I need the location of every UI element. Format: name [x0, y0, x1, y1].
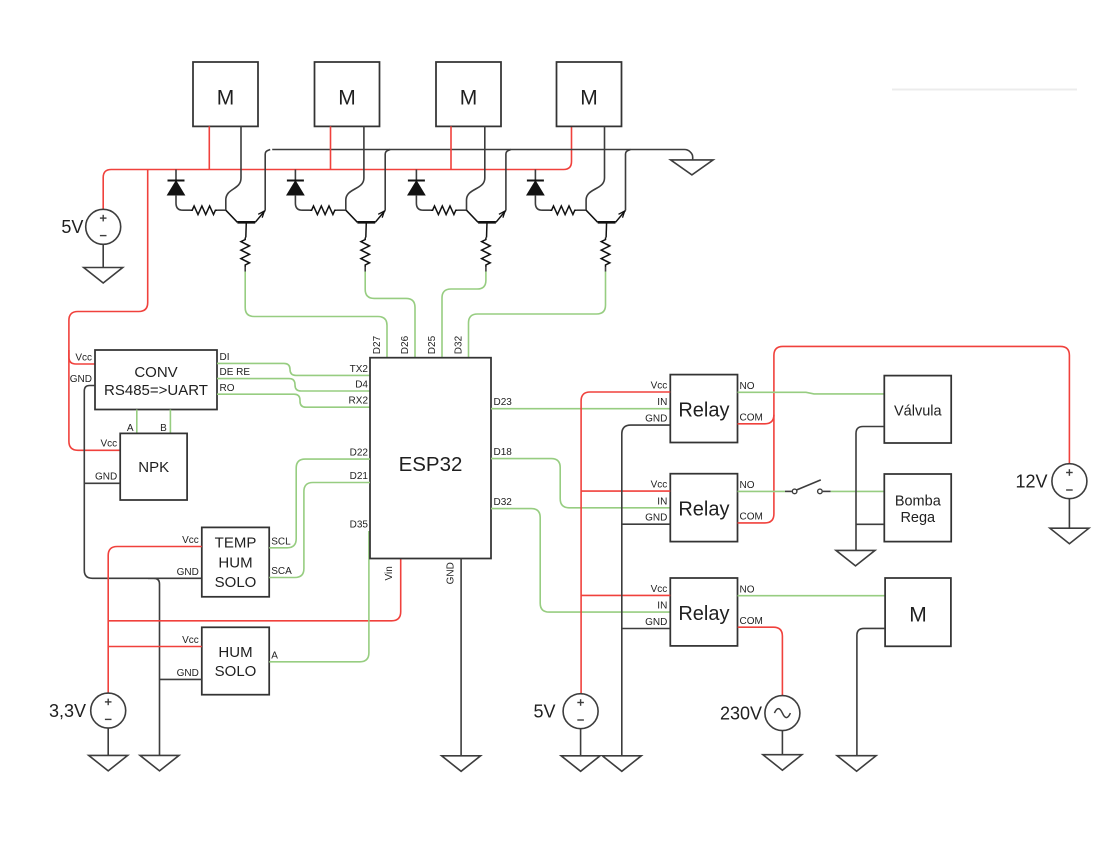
voltage source 230V AC: [765, 696, 800, 731]
svg-text:SCA: SCA: [271, 566, 292, 577]
pin label GND (relay K3): [645, 617, 667, 628]
wire 12V to ground: [1068, 499, 1070, 529]
wire 3,3V to TEMP Vcc: [108, 547, 202, 694]
svg-text:NPK: NPK: [138, 459, 169, 476]
svg-text:3,3V: 3,3V: [49, 701, 86, 721]
pin label D32 (ESP32 top): [454, 335, 465, 354]
wire D32 to relay3 IN: [491, 509, 670, 612]
pin label Vcc (relay K1): [651, 381, 668, 392]
wire 5V red bus: [103, 126, 571, 209]
wire D25 gate (stage 3): [442, 272, 486, 358]
pin label RO (CONV): [220, 383, 235, 394]
wire relay2 GND: [622, 523, 671, 525]
pin label DE RE (CONV): [220, 367, 251, 378]
transistor Q3: [467, 210, 506, 237]
svg-text:Vcc: Vcc: [182, 635, 199, 646]
transistor Q2: [346, 210, 385, 237]
pin label RX2 (ESP32 left): [349, 396, 369, 407]
wire relay GND rail: [622, 425, 671, 756]
actuator Valvula: [884, 376, 951, 443]
svg-text:COM: COM: [740, 412, 763, 423]
pin label SCL (TEMP): [271, 536, 291, 547]
wire 5V bottom to ground: [580, 729, 582, 756]
pin label DI (CONV): [220, 352, 230, 363]
flyback diode (stage 2): [287, 170, 310, 211]
wire M1 red lead: [208, 126, 210, 169]
voltage source 5V (bottom): [563, 694, 598, 729]
wire D18 to relay2 IN: [491, 459, 670, 508]
wire GND (NPK): [84, 482, 120, 484]
wire RO to RX2: [217, 394, 370, 407]
motor M1: [193, 62, 258, 126]
wire relay1 NO to Valvula: [738, 392, 885, 394]
wire GND top bus: [272, 150, 693, 160]
wire GND sensors: [84, 386, 202, 579]
wire ESP32 GND: [460, 559, 462, 756]
svg-text:NO: NO: [740, 584, 755, 595]
wire D26 gate (stage 2): [365, 272, 415, 358]
pin label Vcc (relay K3): [651, 584, 668, 595]
pin label SCA (TEMP): [271, 566, 292, 577]
svg-text:D27: D27: [372, 335, 383, 354]
wire emitter to GND bus (stage 1): [265, 150, 270, 211]
pin label COM (relay K1): [740, 412, 763, 423]
wire switch to Bomba Rega: [831, 490, 885, 492]
transistor Q1: [226, 210, 265, 237]
pin label Vcc (NPK): [101, 439, 118, 450]
pin label COM (relay K3): [740, 616, 763, 627]
svg-text:Relay: Relay: [678, 603, 729, 625]
svg-text:M: M: [909, 604, 927, 627]
wire Valvula GND: [856, 427, 884, 551]
relay K3: [670, 578, 737, 646]
svg-text:Relay: Relay: [678, 400, 729, 422]
svg-text:D32: D32: [494, 497, 513, 508]
wire M4 dark lead: [586, 126, 604, 210]
motor M4: [557, 62, 622, 126]
flyback diode (stage 3): [408, 170, 431, 211]
label 230V: [720, 703, 762, 723]
pin label IN (relay K3): [657, 601, 667, 612]
wire relay3 Vcc: [581, 594, 670, 596]
pin label NO (relay K1): [740, 381, 755, 392]
svg-text:SCL: SCL: [271, 536, 291, 547]
ground (12V): [1050, 528, 1089, 544]
svg-text:RX2: RX2: [349, 396, 369, 407]
base resistor (stage 4): [550, 206, 587, 215]
wire M3 dark lead: [467, 126, 485, 210]
ground (sensor GND): [140, 755, 179, 771]
wire Vcc feed to converter: [69, 170, 148, 451]
wire relay3 COM to 230V: [738, 627, 783, 695]
pin label Vin (ESP32 bottom): [384, 566, 395, 580]
svg-text:D21: D21: [350, 471, 369, 482]
svg-text:D4: D4: [355, 380, 368, 391]
svg-text:GND: GND: [645, 617, 667, 628]
svg-text:GND: GND: [70, 374, 92, 385]
svg-text:B: B: [160, 423, 167, 434]
svg-text:SOLO: SOLO: [215, 574, 257, 591]
pin label Vcc (relay K2): [651, 480, 668, 491]
wire M3 red lead: [450, 126, 452, 169]
microcontroller ESP32: [370, 358, 491, 559]
wire DI to TX2: [217, 363, 370, 375]
pin label D26 (ESP32 top): [400, 335, 411, 354]
wire relay3 GND: [622, 628, 671, 630]
svg-text:GND: GND: [445, 562, 456, 584]
svg-text:GND: GND: [645, 513, 667, 524]
voltage source 3,3V: [91, 693, 126, 728]
svg-text:M: M: [338, 87, 356, 110]
svg-text:RO: RO: [220, 383, 235, 394]
svg-text:Rega: Rega: [900, 510, 936, 526]
pin label GND (CONV): [70, 374, 92, 385]
label 5V (bottom): [533, 702, 555, 722]
ground (top right): [671, 160, 714, 175]
svg-text:TEMP: TEMP: [215, 535, 257, 552]
sensor TEMP HUM SOLO: [202, 527, 269, 596]
svg-text:RS485=>UART: RS485=>UART: [104, 382, 208, 399]
wire 230V to ground: [781, 731, 783, 755]
svg-text:D32: D32: [454, 335, 465, 354]
wire GND branch to bottom ground: [148, 578, 160, 755]
wire motor M GND: [857, 628, 885, 755]
wire D22 to SCL: [269, 459, 370, 548]
svg-text:IN: IN: [657, 496, 667, 507]
pin label GND (ESP32 bottom): [445, 562, 456, 584]
pin label D25 (ESP32 top): [427, 335, 438, 354]
wire emitter to GND bus (stage 3): [506, 150, 511, 211]
svg-text:5V: 5V: [61, 217, 83, 237]
wire relay2 NO to switch: [738, 490, 786, 492]
svg-text:Vcc: Vcc: [75, 353, 92, 364]
svg-text:D18: D18: [494, 447, 513, 458]
flyback diode (stage 4): [527, 170, 550, 211]
voltage source 12V: [1052, 464, 1087, 499]
svg-text:D26: D26: [400, 335, 411, 354]
relay K1: [670, 375, 737, 443]
svg-text:Relay: Relay: [678, 499, 729, 521]
pin label D32 (ESP32 right): [494, 497, 513, 508]
base resistor (stage 3): [431, 206, 467, 215]
wire 3,3V to ESP32 Vin: [108, 559, 401, 621]
wire relay2 COM: [738, 415, 774, 523]
wire relay2 Vcc: [581, 490, 670, 492]
voltage source 5V (top left): [86, 209, 121, 244]
wire D27 gate (stage 1): [245, 272, 387, 358]
label 3,3V: [49, 701, 86, 721]
svg-text:5V: 5V: [533, 702, 555, 722]
wire DE RE to D4: [217, 379, 370, 391]
faint line (top right): [892, 89, 1077, 91]
pin label D18 (ESP32 right): [494, 447, 513, 458]
svg-text:IN: IN: [657, 601, 667, 612]
svg-text:TX2: TX2: [350, 364, 369, 375]
svg-text:A: A: [271, 650, 278, 661]
pin label D21 (ESP32 left): [350, 471, 369, 482]
svg-text:Vin: Vin: [384, 566, 395, 580]
label 5V (top left): [61, 217, 83, 237]
wire relay3 NO to motor: [738, 595, 886, 597]
svg-text:M: M: [460, 87, 478, 110]
wire emitter to GND bus (stage 4): [626, 150, 631, 211]
pin label GND (TEMP): [177, 567, 199, 578]
wire D32 gate (stage 4): [469, 272, 606, 358]
pin label A (HUM): [271, 650, 278, 661]
pin label D23 (ESP32 right): [494, 397, 513, 408]
svg-text:HUM: HUM: [218, 554, 252, 571]
wire 3,3V to HUM Vcc: [108, 646, 202, 648]
sensor NPK: [120, 433, 187, 500]
svg-text:NO: NO: [740, 480, 755, 491]
svg-text:Vcc: Vcc: [651, 381, 668, 392]
svg-text:HUM: HUM: [218, 644, 252, 661]
svg-text:12V: 12V: [1015, 472, 1047, 492]
svg-text:CONV: CONV: [134, 364, 177, 381]
pin label IN (relay K1): [657, 397, 667, 408]
pin label Vcc (HUM): [182, 635, 199, 646]
wire emitter to GND bus (stage 2): [385, 150, 390, 211]
converter CONV RS485=>UART: [95, 350, 217, 410]
svg-text:GND: GND: [177, 567, 199, 578]
pin label D35 (ESP32 left): [350, 520, 369, 531]
wire Bomba GND: [856, 523, 884, 525]
label 12V: [1015, 472, 1047, 492]
wire D21 to SCA: [269, 483, 370, 578]
svg-text:A: A: [127, 423, 134, 434]
pull-down resistor (stage 1): [241, 238, 250, 272]
base resistor (stage 2): [310, 206, 346, 215]
svg-text:ESP32: ESP32: [399, 453, 463, 476]
svg-text:IN: IN: [657, 397, 667, 408]
svg-text:Vcc: Vcc: [182, 535, 199, 546]
wire M1 dark lead: [226, 126, 241, 210]
wire relay1 COM to 12V: [738, 346, 1070, 463]
svg-text:D22: D22: [350, 448, 369, 459]
svg-text:Válvula: Válvula: [894, 403, 942, 419]
ground (motor M): [837, 756, 876, 772]
motor M2: [315, 62, 380, 126]
svg-text:DI: DI: [220, 352, 230, 363]
svg-text:COM: COM: [740, 616, 763, 627]
svg-text:230V: 230V: [720, 703, 762, 723]
pin label Vcc (CONV): [75, 353, 92, 364]
wire 3,3V to ground: [107, 728, 109, 755]
pin label Vcc (TEMP): [182, 535, 199, 546]
svg-text:Bomba: Bomba: [895, 494, 942, 510]
svg-text:M: M: [580, 87, 598, 110]
wire D23 to relay1 IN: [491, 408, 670, 410]
pin label GND (NPK): [95, 472, 117, 483]
svg-text:Vcc: Vcc: [651, 584, 668, 595]
pin label TX2 (ESP32 left): [350, 364, 369, 375]
sensor HUM SOLO: [202, 627, 269, 694]
pin label GND (relay K1): [645, 414, 667, 425]
wire 5V source to ground: [102, 244, 104, 267]
wire B (CONV to NPK): [169, 410, 171, 434]
svg-text:D23: D23: [494, 397, 513, 408]
motor M (right): [885, 578, 951, 646]
wire Vcc branch to CONV: [69, 350, 95, 364]
pin label D27 (ESP32 top): [372, 335, 383, 354]
svg-text:NO: NO: [740, 381, 755, 392]
pin label A (NPK): [127, 423, 134, 434]
wire M2 dark lead: [346, 126, 364, 210]
ground (230V): [763, 755, 802, 771]
ground (5V bottom): [561, 756, 600, 772]
wire A (CONV to NPK): [136, 410, 138, 434]
pin label COM (relay K2): [740, 512, 763, 523]
pin label GND (relay K2): [645, 513, 667, 524]
svg-text:Vcc: Vcc: [651, 480, 668, 491]
svg-text:Vcc: Vcc: [101, 439, 118, 450]
ground (under 5V top left): [84, 268, 123, 284]
svg-text:GND: GND: [95, 472, 117, 483]
pull-down resistor (stage 2): [361, 238, 370, 272]
base resistor (stage 1): [190, 206, 226, 215]
pin label GND (HUM): [177, 668, 199, 679]
svg-text:D35: D35: [350, 520, 369, 531]
ground (under 3,3V): [89, 755, 128, 771]
svg-text:M: M: [217, 87, 235, 110]
switch S1: [785, 480, 831, 494]
pull-down resistor (stage 4): [601, 238, 610, 272]
svg-text:GND: GND: [645, 414, 667, 425]
pin label IN (relay K2): [657, 496, 667, 507]
pin label NO (relay K2): [740, 480, 755, 491]
pull-down resistor (stage 3): [482, 238, 491, 272]
flyback diode (stage 1): [168, 170, 191, 211]
pin label B (NPK): [160, 423, 167, 434]
wire HUM A to D35: [269, 531, 369, 662]
ground (ESP32): [442, 756, 481, 772]
svg-text:GND: GND: [177, 668, 199, 679]
pin label D22 (ESP32 left): [350, 448, 369, 459]
ground (relays): [602, 756, 641, 772]
pin label D4 (ESP32 left): [355, 380, 368, 391]
wire relay Vcc rail: [581, 392, 670, 694]
wire M2 red lead: [330, 126, 332, 169]
motor M3: [436, 62, 501, 126]
ground (Valvula/Bomba): [836, 550, 875, 566]
actuator Bomba Rega: [884, 474, 951, 542]
svg-text:D25: D25: [427, 335, 438, 354]
transistor Q4: [586, 210, 625, 237]
pin label NO (relay K3): [740, 584, 755, 595]
svg-text:COM: COM: [740, 512, 763, 523]
svg-text:SOLO: SOLO: [215, 663, 257, 680]
svg-text:DE RE: DE RE: [220, 367, 251, 378]
relay K2: [670, 474, 737, 542]
wire HUM GND: [160, 678, 202, 680]
